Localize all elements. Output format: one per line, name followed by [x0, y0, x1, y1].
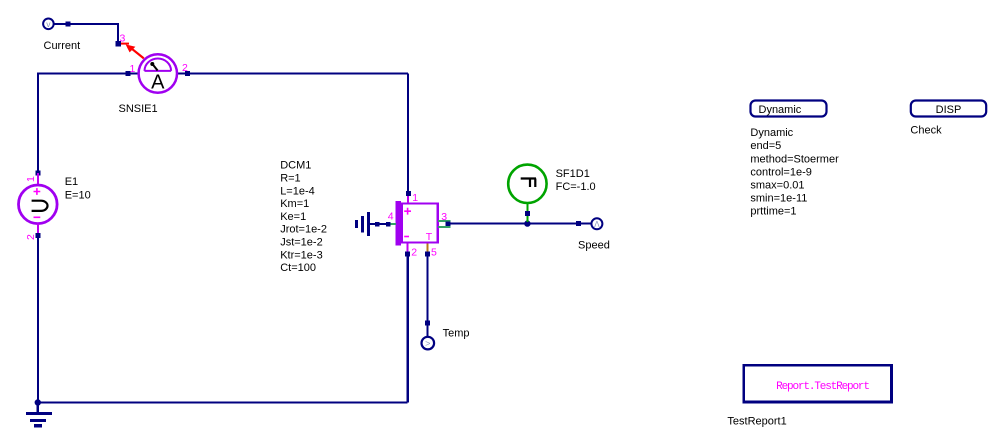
- source SF1D1: [508, 165, 546, 203]
- ground (left of DCM1): [355, 212, 370, 236]
- svg-text:FC=-1.0: FC=-1.0: [556, 181, 596, 193]
- DCM1 pin 1 violet stub: [407, 196, 409, 203]
- ammeter SNSIE1: [139, 54, 177, 93]
- svg-text:R=1: R=1: [280, 173, 301, 185]
- svg-text:2: 2: [182, 62, 188, 74]
- magenta stub E1 top: [37, 173, 39, 185]
- svg-text:control=1e-9: control=1e-9: [750, 166, 811, 178]
- voltage source E1: [19, 185, 58, 224]
- Dynamic parameters: [750, 127, 839, 218]
- svg-text:SF1D1: SF1D1: [556, 168, 590, 180]
- svg-text:>: >: [425, 339, 430, 349]
- DCM1 pin 4 squares: [386, 222, 391, 227]
- DCM1 pin 3 square: [446, 221, 451, 226]
- svg-text:5: 5: [431, 247, 437, 259]
- svg-text:Jrot=1e-2: Jrot=1e-2: [280, 224, 327, 236]
- ground bottom left: [26, 399, 52, 427]
- red sensor arrow: [121, 44, 144, 59]
- svg-text:Ktr=1e-3: Ktr=1e-3: [280, 249, 323, 261]
- svg-text:Current: Current: [44, 40, 81, 52]
- svg-text:Dynamic: Dynamic: [750, 127, 793, 139]
- svg-text:prttime=1: prttime=1: [750, 206, 796, 218]
- svg-text:1: 1: [412, 192, 418, 204]
- svg-text:DCM1: DCM1: [280, 160, 311, 172]
- Dynamic block button: [751, 101, 827, 117]
- svg-text:Ke=1: Ke=1: [280, 211, 306, 223]
- svg-text:Jst=1e-2: Jst=1e-2: [280, 237, 323, 249]
- wire pin5 down to Temp: [427, 256, 429, 337]
- pin square E1 pin 1: [35, 171, 40, 176]
- DC motor DCM1 body: [395, 201, 438, 245]
- svg-text:E=10: E=10: [65, 189, 91, 201]
- junction square Temp: [425, 321, 430, 326]
- svg-text:method=Stoermer: method=Stoermer: [750, 153, 839, 165]
- svg-text:Km=1: Km=1: [280, 198, 309, 210]
- svg-text:Ct=100: Ct=100: [280, 262, 316, 274]
- DCM1 pin 4 green stub: [390, 223, 397, 225]
- svg-text:SNSIE1: SNSIE1: [119, 103, 158, 115]
- svg-text:smax=0.01: smax=0.01: [750, 180, 804, 192]
- svg-text:Λ: Λ: [594, 220, 600, 229]
- svg-text:DISP: DISP: [936, 104, 962, 116]
- svg-text:4: 4: [388, 211, 394, 223]
- DCM1 pin 2 violet stub: [407, 244, 409, 253]
- DCM1 pin 5 orange stub: [427, 244, 429, 253]
- SF1D1 pin square: [525, 211, 530, 216]
- junction on Current wire: [66, 21, 71, 26]
- svg-text:Dynamic: Dynamic: [759, 104, 802, 116]
- svg-text:1: 1: [25, 176, 37, 182]
- DCM1 pin 3 green pin: [438, 221, 451, 227]
- svg-text:T: T: [426, 231, 433, 243]
- svg-text:A: A: [151, 72, 165, 94]
- DCM1 pin 1 square: [406, 191, 411, 196]
- svg-text:v: v: [46, 19, 51, 29]
- DISP block button: [911, 101, 986, 117]
- DCM1 pin 2 square: [405, 251, 410, 256]
- svg-text:L=1e-4: L=1e-4: [280, 185, 315, 197]
- svg-text:2: 2: [25, 234, 37, 240]
- pin square E1 pin 2: [35, 233, 40, 238]
- probe terminal Temp: [422, 337, 435, 350]
- DCM1 pin 5 square: [425, 251, 430, 256]
- Report.TestReport block: [744, 365, 892, 402]
- svg-text:Speed: Speed: [578, 239, 610, 251]
- left vertical wire bottom: [37, 237, 39, 403]
- svg-text:E1: E1: [65, 176, 78, 188]
- svg-text:1: 1: [130, 63, 136, 75]
- wire pin3 to Speed: [450, 223, 591, 225]
- wire pin2 down and across bottom: [38, 256, 408, 403]
- svg-text:3: 3: [441, 211, 447, 223]
- DCM1 parameter text: [280, 160, 327, 274]
- junction square pin 2 of SNSIE1: [185, 71, 190, 76]
- probe terminal Speed: [591, 218, 602, 229]
- magenta stub E1 bottom: [37, 224, 39, 235]
- SF1D1 green stub: [526, 203, 528, 222]
- pin square node 3: [116, 41, 122, 47]
- svg-text:end=5: end=5: [750, 140, 781, 152]
- svg-text:Check: Check: [910, 125, 942, 137]
- wire right of ammeter: [178, 73, 409, 193]
- svg-text:2: 2: [411, 247, 417, 259]
- svg-text:smin=1e-11: smin=1e-11: [750, 193, 807, 205]
- DCM1 pin 4 wire to ground: [370, 223, 387, 225]
- probe terminal Current: [43, 19, 54, 30]
- svg-text:TestReport1: TestReport1: [727, 416, 786, 428]
- junction square pin 1 of SNSIE1: [126, 71, 131, 76]
- junction square before Speed: [576, 221, 581, 226]
- svg-text:Temp: Temp: [443, 327, 470, 339]
- wire from Current probe: [55, 23, 119, 43]
- wire left of ammeter: [37, 72, 138, 74]
- left vertical wire top: [37, 72, 39, 171]
- junction dot SF1D1: [524, 220, 530, 226]
- svg-text:Report.TestReport: Report.TestReport: [776, 381, 869, 393]
